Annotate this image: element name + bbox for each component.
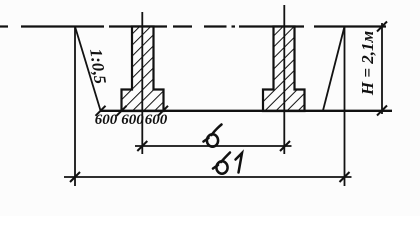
svg-text:600: 600 <box>145 112 168 128</box>
svg-text:600: 600 <box>95 112 118 128</box>
svg-text:1:0,5: 1:0,5 <box>86 47 110 85</box>
svg-text:600: 600 <box>121 112 144 128</box>
svg-text:Н = 2,1м: Н = 2,1м <box>358 30 377 96</box>
